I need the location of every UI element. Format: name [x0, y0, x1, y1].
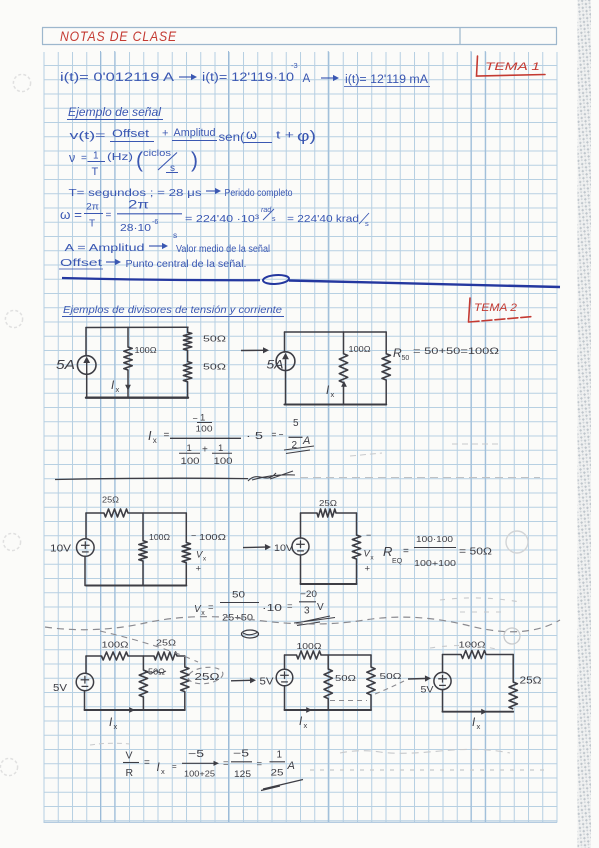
svg-text:100Ω: 100Ω [199, 533, 226, 542]
svg-text:x: x [161, 767, 165, 776]
svg-text:+: + [162, 128, 168, 140]
svg-text:NOTAS DE CLASE: NOTAS DE CLASE [60, 28, 177, 44]
svg-text:= 224'40 krad: = 224'40 krad [287, 213, 359, 225]
voltage source 10V [292, 538, 309, 555]
svg-text:V: V [317, 602, 324, 613]
equation T = 28 us periodo completo [69, 187, 293, 199]
resistor 50ohm upper [183, 332, 191, 350]
wire top [86, 655, 185, 657]
svg-text:V: V [126, 750, 133, 762]
resistor 50ohm right [367, 667, 375, 695]
value label 50ohm [203, 334, 226, 344]
value label 25ohm circled [187, 665, 224, 685]
svg-text:−: − [366, 530, 371, 540]
wire middle branch [127, 327, 129, 397]
svg-text:ω: ω [246, 126, 257, 142]
svg-text:x: x [303, 721, 307, 730]
annotation dashed curve [100, 631, 198, 662]
svg-text:s: s [173, 230, 177, 240]
svg-text:100Ω: 100Ω [102, 641, 129, 650]
wire top [443, 654, 514, 656]
value label 50ohm scribbled [145, 668, 166, 677]
svg-text:5A: 5A [56, 358, 75, 372]
svg-text:1: 1 [277, 750, 283, 761]
wire left branch [442, 655, 444, 712]
svg-text:i(t)= 12'119 mA: i(t)= 12'119 mA [345, 74, 428, 86]
svg-text:x: x [201, 610, 205, 617]
wire right branch [385, 332, 387, 405]
svg-text:EQ: EQ [392, 558, 403, 565]
title NOTAS DE CLASE [60, 28, 177, 44]
wire bottom with Ix arrow [443, 709, 514, 715]
svg-text:−5: −5 [188, 749, 205, 760]
wire middle branch [327, 655, 329, 710]
svg-text:1: 1 [93, 151, 99, 162]
svg-text:sen(: sen( [219, 132, 245, 144]
equation i(t)=12.119e-3 A [202, 61, 311, 85]
label TEMA 1 [477, 56, 546, 76]
arrow to simplified circuit [241, 347, 269, 353]
wire right branch [185, 513, 187, 586]
svg-text:ν: ν [69, 151, 75, 165]
resistor 25ohm [509, 682, 517, 709]
svg-text:2π: 2π [86, 202, 99, 213]
equation i(t)=0.012119 A [60, 72, 174, 84]
value label 10V [274, 543, 294, 554]
wire right branch [370, 655, 372, 710]
resistor 50ohm middle [324, 669, 332, 699]
value label 5A [267, 360, 284, 372]
svg-text:T: T [89, 219, 95, 230]
svg-text:A: A [287, 760, 295, 772]
svg-text:3: 3 [304, 606, 310, 617]
svg-text:A: A [302, 435, 310, 447]
resistor 100ohm top [461, 651, 486, 659]
svg-text:A = Amplitud: A = Amplitud [65, 242, 145, 254]
svg-text:A: A [303, 73, 311, 85]
equation i(t)=12.119 mA [344, 74, 430, 87]
voltage source 5V [76, 673, 93, 690]
value label 10V [50, 544, 71, 555]
svg-text:Offset: Offset [60, 257, 102, 269]
svg-text:s: s [365, 219, 369, 228]
wire left branch [300, 513, 302, 584]
value label 5V [260, 677, 274, 688]
polarity and voltage label Vx [364, 530, 375, 575]
equation Vx = 50/(25+50)*10 = 20/3 V [194, 589, 335, 626]
svg-text:50Ω: 50Ω [380, 671, 402, 681]
svg-text:125: 125 [234, 769, 251, 779]
svg-text:Ejemplos de divisores de tensi: Ejemplos de divisores de tensión y corri… [63, 304, 282, 316]
svg-text:ciclos: ciclos [143, 148, 171, 159]
value label 25ohm [319, 499, 337, 508]
svg-text:T: T [92, 166, 99, 178]
resistor 100ohm [339, 354, 347, 383]
svg-text:10V: 10V [274, 543, 294, 554]
voltage source 10V [77, 539, 95, 557]
polarity minus and value label 100ohm [191, 531, 226, 543]
svg-text:1: 1 [218, 443, 223, 454]
wire right branch [356, 513, 358, 584]
wire middle branch [343, 332, 345, 405]
value label 50ohm [203, 362, 226, 372]
arrow to next circuit [231, 677, 256, 683]
svg-text:100Ω: 100Ω [459, 641, 486, 650]
svg-text:Periodo completo: Periodo completo [225, 187, 293, 199]
svg-text:R: R [383, 544, 392, 559]
arrow [321, 75, 339, 81]
svg-text:100+100: 100+100 [414, 558, 456, 568]
resistor 25ohm top [104, 509, 128, 517]
wire top [86, 326, 188, 328]
svg-text:1: 1 [187, 443, 192, 454]
svg-text:=: = [287, 601, 293, 612]
svg-text:2π: 2π [128, 198, 149, 212]
wire right branch [187, 327, 189, 398]
svg-text:=: = [81, 153, 87, 164]
value label 5V [53, 683, 67, 694]
current source 5A [276, 352, 295, 371]
resistor 50ohm middle [139, 670, 147, 697]
svg-text:t +: t + [276, 130, 294, 142]
svg-text:−5: −5 [233, 749, 250, 760]
svg-text:+: + [365, 564, 371, 575]
heading Ejemplo de senal [67, 107, 163, 120]
resistor R50 [382, 354, 390, 380]
resistor 100ohm top [102, 652, 129, 660]
svg-text:+: + [196, 564, 202, 575]
svg-text:x: x [153, 436, 157, 445]
svg-text:50: 50 [232, 590, 245, 601]
equation omega = 2pi/T [60, 198, 369, 241]
wire left branch [85, 513, 86, 586]
wire bottom [301, 583, 357, 585]
arrow to next circuit [408, 675, 431, 681]
note Offset [59, 257, 247, 270]
current Ix up arrow [341, 381, 347, 387]
header rule box [42, 28, 557, 45]
svg-text:=: = [172, 762, 177, 771]
svg-text:): ) [191, 149, 198, 172]
resistor 100ohm right [182, 543, 190, 563]
svg-text:25Ω: 25Ω [520, 676, 543, 687]
svg-text:x: x [113, 722, 117, 731]
svg-text:Ejemplo de señal: Ejemplo de señal [68, 107, 161, 119]
svg-text:i(t)= 0'012119 A: i(t)= 0'012119 A [60, 72, 174, 84]
wire top [285, 654, 372, 656]
equation v(t)=Offset+Amplitud sen(wt+phi) [70, 126, 317, 145]
resistor 25ohm top [154, 652, 177, 660]
divider pencil line [55, 471, 295, 481]
wire right branch [184, 656, 186, 710]
svg-text:I: I [148, 429, 152, 443]
annotation dashes [330, 681, 404, 701]
value label 50ohm [335, 673, 356, 683]
svg-text:100·100: 100·100 [416, 534, 453, 544]
svg-text:TEMA 2: TEMA 2 [474, 302, 517, 314]
value label 100ohm [135, 346, 157, 355]
equation Ix = (-1/100)/(1/100+1/100) * 5 = -5/2 A [148, 413, 314, 467]
svg-text:25Ω: 25Ω [319, 499, 337, 508]
svg-text:100: 100 [196, 425, 214, 434]
value label 50ohm [380, 671, 402, 681]
svg-text:1: 1 [200, 413, 205, 424]
svg-text:−: − [193, 414, 198, 424]
svg-text:=: = [144, 758, 150, 769]
svg-text:=: = [403, 546, 409, 557]
svg-text:=: = [208, 602, 214, 613]
svg-text:50Ω: 50Ω [335, 673, 356, 683]
svg-text:·10: ·10 [262, 603, 283, 614]
resistor 50ohm equivalent [352, 535, 360, 559]
svg-text:· 5: · 5 [246, 430, 263, 442]
svg-text:=: = [106, 210, 112, 221]
resistor 100ohm [124, 347, 132, 370]
svg-text:x: x [476, 722, 480, 731]
value label 100ohm [149, 533, 170, 542]
wire bottom [285, 403, 387, 405]
wire left branch [284, 655, 286, 710]
svg-text:10V: 10V [50, 544, 71, 555]
divider wavy dashed line [45, 617, 560, 638]
equation nu = 1/T (Hz)(ciclos/s) [69, 148, 198, 178]
value label 25ohm [156, 639, 176, 648]
resistor 25ohm right [181, 667, 189, 692]
wire left branch [85, 656, 87, 710]
note A = Amplitud [65, 242, 271, 255]
svg-text:100Ω: 100Ω [135, 346, 157, 355]
svg-text:(: ( [136, 149, 143, 172]
svg-text:Punto central de la señal.: Punto central de la señal. [126, 259, 247, 270]
equation V/R = Ix = -5/(100+25) = -5/125 = 1/25 A [123, 749, 303, 791]
value label R50 = 50+50 = 100ohm [393, 346, 499, 362]
svg-text:ω =: ω = [60, 207, 82, 222]
voltage label Vx [196, 550, 207, 575]
svg-text:50Ω: 50Ω [203, 362, 226, 372]
svg-text:x: x [115, 385, 119, 394]
svg-text:+: + [202, 445, 208, 456]
current Ix down arrow [125, 385, 131, 391]
svg-text:5V: 5V [421, 685, 435, 696]
svg-text:= 224'40 ·10³: = 224'40 ·10³ [185, 213, 260, 225]
svg-text:x: x [330, 390, 334, 399]
wire left branch [85, 328, 88, 398]
svg-text:100Ω: 100Ω [297, 642, 322, 651]
ghost marks [90, 444, 545, 770]
resistor 100ohm [139, 541, 147, 561]
svg-text:25Ω: 25Ω [156, 639, 176, 648]
svg-text:φ): φ) [297, 128, 316, 145]
current label Ix [111, 380, 119, 394]
value label 100ohm [297, 642, 322, 651]
wire bottom [86, 397, 188, 399]
svg-text:50: 50 [401, 355, 409, 362]
wire left branch [285, 332, 286, 405]
svg-text:28·10: 28·10 [120, 223, 152, 234]
value label 100ohm [102, 641, 129, 650]
svg-text:5: 5 [293, 418, 299, 429]
divider line [62, 274, 560, 287]
svg-text:100: 100 [181, 456, 200, 466]
value label 25ohm [520, 676, 543, 687]
arrow [179, 74, 197, 80]
svg-text:R: R [126, 767, 134, 779]
svg-text:100Ω: 100Ω [349, 345, 371, 354]
wire middle branch [142, 656, 144, 710]
current label Ix [326, 385, 334, 399]
current source 5A [77, 356, 96, 375]
resistor 100ohm top [297, 651, 322, 659]
svg-text:= 50+50=100Ω: = 50+50=100Ω [413, 346, 499, 357]
svg-text:=: = [164, 430, 170, 441]
svg-text:−20: −20 [300, 589, 317, 600]
voltage source 5V [434, 672, 451, 689]
value label 100ohm [349, 345, 371, 354]
value label 5V [421, 685, 435, 696]
value label 5A [56, 358, 75, 372]
value label 25ohm [102, 496, 119, 505]
svg-text:100+25: 100+25 [184, 770, 215, 779]
resistor 25ohm top [317, 509, 336, 517]
svg-text:v(t)=: v(t)= [70, 130, 106, 142]
svg-text:= −: = − [272, 430, 284, 441]
resistor 50ohm lower [183, 362, 191, 382]
svg-text:−: − [191, 531, 196, 541]
wire bottom with Ix arrow [85, 707, 185, 713]
heading Ejemplos de divisores [62, 304, 284, 317]
wire middle branch [142, 513, 144, 586]
value label 100ohm [459, 641, 486, 650]
wire bottom with Ix arrow [285, 707, 372, 713]
svg-text:25: 25 [271, 768, 284, 778]
svg-text:(Hz): (Hz) [107, 152, 133, 163]
svg-text:=: = [223, 758, 229, 769]
svg-text:25Ω: 25Ω [102, 496, 119, 505]
arrow to simplified circuit [243, 544, 271, 550]
wire top [285, 331, 387, 333]
svg-text:= 50Ω: = 50Ω [459, 547, 493, 558]
wire bottom [86, 585, 186, 587]
svg-text:TEMA 1: TEMA 1 [485, 61, 540, 73]
svg-text:Offset: Offset [112, 128, 149, 140]
current label Ix [472, 717, 480, 731]
svg-text:100: 100 [214, 456, 233, 466]
current label Ix [109, 717, 117, 731]
svg-text:100Ω: 100Ω [149, 533, 170, 542]
wire right branch [512, 655, 514, 683]
equation Req = 100*100/(100+100) = 50ohm [383, 534, 493, 568]
wire top [301, 512, 357, 514]
svg-text:5V: 5V [260, 677, 274, 688]
svg-text:50Ω: 50Ω [203, 334, 226, 344]
label TEMA 2 [469, 298, 534, 322]
svg-text:s: s [272, 216, 276, 223]
svg-text:Amplitud: Amplitud [174, 127, 216, 139]
svg-text:Valor medio de la señal: Valor medio de la señal [176, 244, 270, 255]
svg-text:5V: 5V [53, 683, 67, 694]
svg-text:=: = [257, 759, 263, 770]
wire top [86, 512, 186, 514]
voltage source 5V [276, 669, 293, 686]
svg-text:-3: -3 [291, 61, 298, 70]
svg-text:-6: -6 [152, 219, 158, 226]
current label Ix [299, 716, 307, 730]
svg-text:i(t)= 12'119·10: i(t)= 12'119·10 [202, 72, 294, 84]
